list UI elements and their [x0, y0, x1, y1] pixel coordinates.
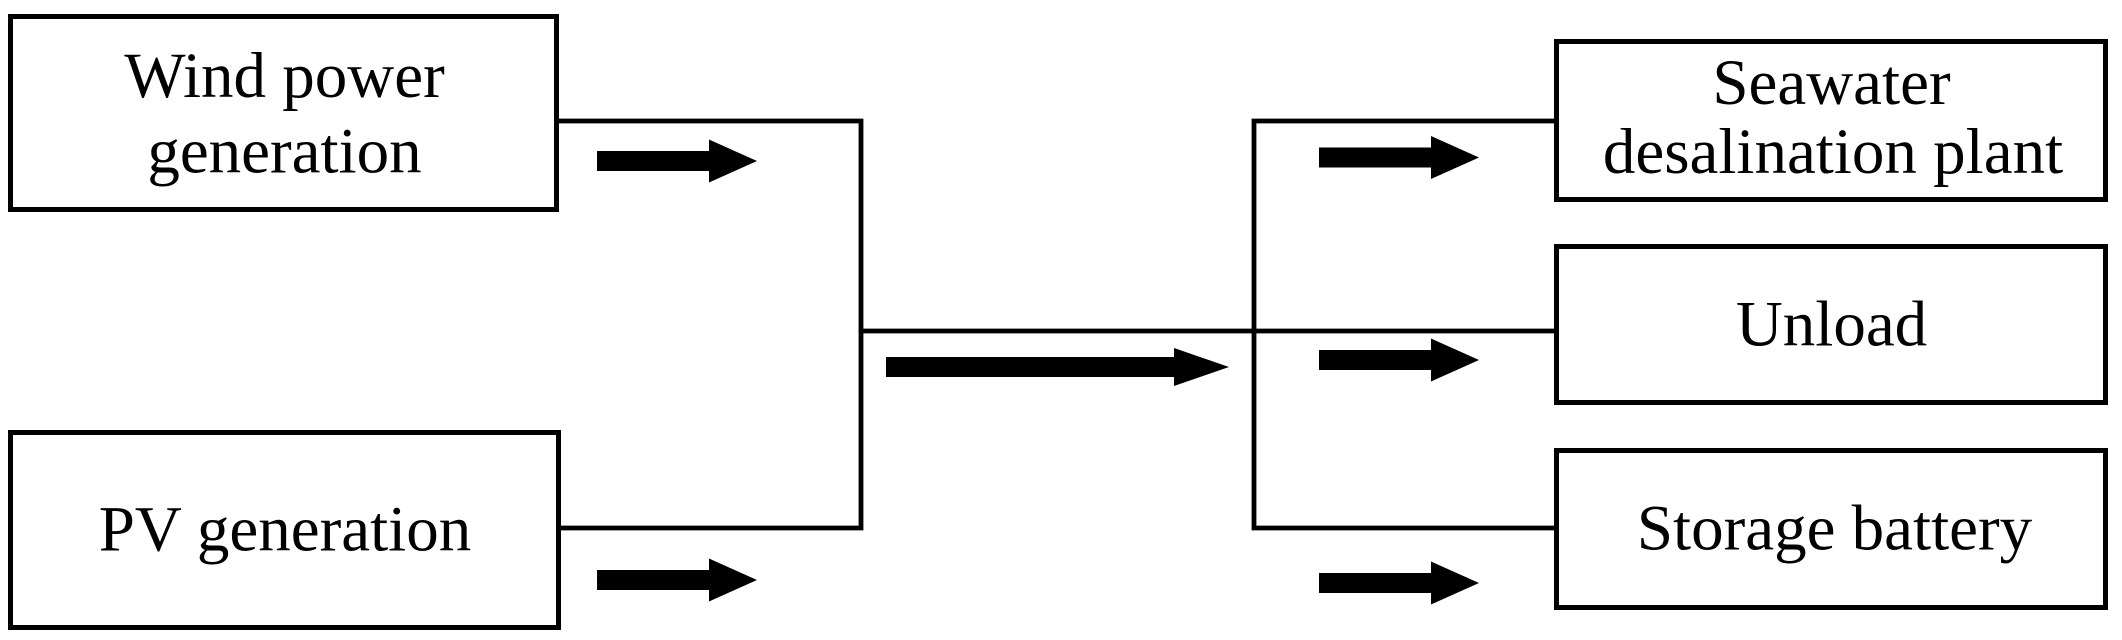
arrow to Storage battery [1319, 562, 1479, 605]
wire from Wind power box to bus, bus vertical, wire from PV box [557, 121, 861, 528]
svg-text:Seawater: Seawater [1712, 47, 1951, 119]
svg-text:PV generation: PV generation [99, 494, 471, 566]
arrow bus to right junction [886, 348, 1229, 386]
svg-text:Unload: Unload [1736, 289, 1927, 361]
box Seawater desalination plant [1557, 42, 2106, 200]
box Storage battery [1557, 451, 2106, 608]
wire bus middle branch to Unload [859, 329, 1556, 334]
box Wind power generation [11, 17, 557, 210]
box PV generation [11, 433, 559, 628]
box Unload [1557, 247, 2106, 403]
arrow from PV generation [597, 559, 757, 602]
arrow to Seawater desalination plant [1319, 136, 1479, 179]
svg-text:generation: generation [147, 116, 421, 188]
arrow from Wind power generation [597, 140, 757, 183]
svg-text:Storage battery: Storage battery [1637, 493, 2033, 565]
svg-text:desalination plant: desalination plant [1603, 116, 2063, 188]
wire right junction vertical with branches to Seawater and Storage battery [1254, 121, 1556, 528]
arrow to Unload [1319, 339, 1479, 382]
svg-text:Wind power: Wind power [124, 40, 445, 112]
